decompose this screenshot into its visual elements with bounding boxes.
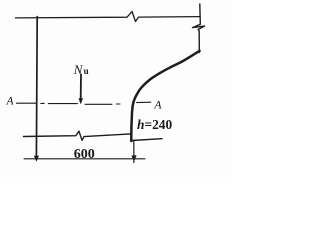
- dimension arrow left: [34, 156, 39, 162]
- svg-text:600: 600: [74, 147, 95, 162]
- svg-text:A: A: [6, 95, 15, 107]
- bottom edge line left with break symbol: [24, 131, 132, 140]
- bottom edge line right: [132, 139, 163, 141]
- section line A-A (dash-dot): [17, 102, 151, 104]
- svg-text:A: A: [153, 98, 162, 112]
- svg-text:u: u: [84, 66, 89, 76]
- dimension arrow right: [131, 155, 136, 161]
- right edge line upper with break symbol: [193, 4, 205, 53]
- haunch curve: [131, 51, 199, 141]
- left column edge / extension line: [35, 17, 38, 157]
- svg-text:h=240: h=240: [137, 117, 172, 132]
- top edge line with break symbol: [16, 12, 200, 22]
- svg-text:N: N: [73, 62, 84, 77]
- right extension line: [133, 141, 135, 163]
- load arrow Nu: [79, 75, 84, 105]
- dimension line 600: [24, 158, 145, 160]
